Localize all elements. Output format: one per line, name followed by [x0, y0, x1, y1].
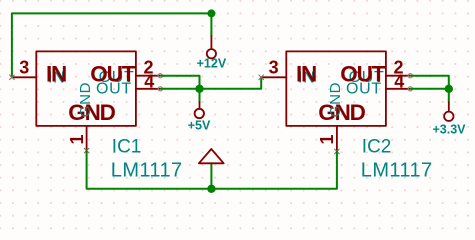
pin 2 IC2: [386, 75, 410, 77]
svg-text:IC1: IC1: [112, 136, 142, 157]
junction mid at +5V tap: [195, 85, 203, 93]
junction right at +3.3V tap: [445, 85, 453, 93]
ic IC1 LM1117 body: [36, 51, 136, 126]
svg-text:OUT: OUT: [96, 81, 132, 98]
svg-text:IC2: IC2: [362, 136, 392, 157]
svg-text:4: 4: [144, 72, 154, 92]
pin 4 IC1: [136, 88, 160, 90]
svg-text:1: 1: [67, 134, 87, 144]
power +5V: [188, 89, 211, 133]
wire pin4 IC2 to right junction: [411, 88, 449, 90]
connection x marker pin3 IC1: [10, 75, 15, 80]
pin 1 IC2: [336, 126, 338, 151]
junction ground bus at GND stem: [207, 185, 215, 193]
connection x marker pin1 IC1: [84, 148, 89, 153]
pin end marker circle pin2 IC1: [158, 74, 162, 78]
pin 1 IC1: [86, 126, 88, 151]
svg-text:GND: GND: [327, 82, 344, 117]
svg-text:LM1117: LM1117: [361, 159, 433, 181]
power +12V: [197, 36, 227, 71]
connection x marker pin3 IC2: [259, 75, 264, 80]
pin 2 IC1: [136, 75, 160, 77]
svg-text:+3.3V: +3.3V: [432, 123, 466, 137]
pin end marker circle pin4 IC2: [408, 87, 412, 91]
svg-text:IN: IN: [296, 62, 316, 87]
wire GND stem: [210, 163, 212, 189]
svg-text:OUT: OUT: [346, 81, 382, 98]
svg-text:4: 4: [394, 72, 404, 92]
svg-text:+5V: +5V: [188, 118, 211, 132]
wire top bus from left riser to +12V junction: [12, 13, 212, 77]
svg-text:+12V: +12V: [197, 57, 227, 71]
pin 4 IC2: [386, 88, 410, 90]
wire ground bus pin1 IC1 to pin1 IC2: [87, 151, 337, 189]
wire pin2 IC1 to mid junction: [161, 76, 200, 89]
connection x marker pin1 IC2: [335, 149, 340, 154]
junction top at +12V tap: [207, 9, 215, 17]
ground symbol triangle: [199, 149, 224, 163]
svg-text:3: 3: [269, 58, 279, 78]
svg-text:LM1117: LM1117: [111, 159, 183, 181]
wire pin2 IC2 to right junction: [411, 76, 449, 89]
pin end marker circle pin2 IC2: [408, 74, 412, 78]
wire mid bus pin4 IC1 to IC2 pin3 riser: [161, 77, 261, 89]
power +3.3V: [432, 89, 466, 137]
svg-text:GND: GND: [77, 82, 94, 117]
svg-text:3: 3: [19, 58, 29, 78]
svg-text:1: 1: [317, 134, 337, 144]
pin 3 IC2: [261, 76, 286, 78]
ic IC2 LM1117 body: [286, 51, 386, 126]
pin end marker circle pin4 IC1: [158, 87, 162, 91]
pin 3 IC1: [12, 76, 36, 78]
svg-text:IN: IN: [46, 62, 66, 87]
